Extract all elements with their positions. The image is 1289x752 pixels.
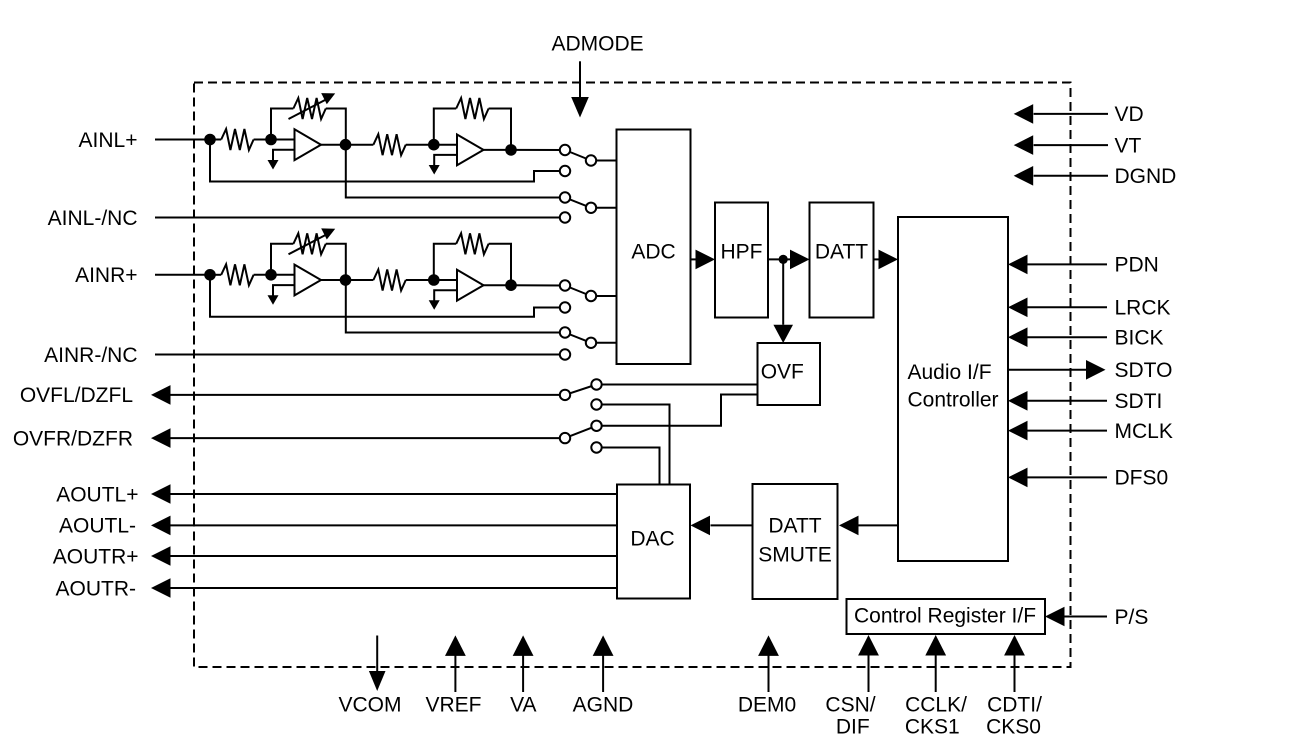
- svg-text:Audio I/F: Audio I/F: [908, 361, 992, 384]
- ground VCOM arrow at UL1: [268, 160, 279, 170]
- pin DEM0 arrow: [768, 655, 770, 692]
- pin AOUTL+ arrow: [151, 484, 171, 504]
- block DATT SMUTE: [753, 484, 838, 599]
- svg-text:AOUTL+: AOUTL+: [56, 483, 138, 506]
- wire HPF to DATT: [768, 258, 791, 260]
- svg-text:BICK: BICK: [1115, 327, 1164, 350]
- wire to op-amp UR2 +input: [434, 279, 457, 281]
- pin DGND: [1034, 175, 1108, 177]
- svg-text:DFS0: DFS0: [1115, 467, 1169, 490]
- wire to op-amp UR1 +input: [271, 274, 295, 276]
- svg-text:CKS0: CKS0: [986, 716, 1041, 739]
- svg-text:VREF: VREF: [425, 694, 481, 717]
- pin BICK: [1028, 336, 1108, 338]
- wire AINL row2 feedback path: [210, 140, 565, 182]
- svg-text:DIF: DIF: [836, 716, 870, 739]
- wire to op-amp UL2 +input: [434, 144, 457, 146]
- svg-text:SDTO: SDTO: [1115, 359, 1173, 382]
- resistor RR1: [210, 274, 221, 276]
- svg-text:ADC: ADC: [631, 241, 675, 264]
- wire UR2 output: [484, 284, 512, 286]
- wire OVFR/DZFR output: [170, 437, 566, 439]
- wire AINL+ input: [155, 139, 210, 141]
- svg-text:VA: VA: [510, 694, 536, 717]
- svg-text:CSN/: CSN/: [825, 694, 875, 717]
- wire AOUTR- output: [170, 587, 618, 589]
- pin VREF arrow: [454, 655, 456, 692]
- variable resistor VRL feedback: [271, 109, 293, 140]
- svg-text:SDTI: SDTI: [1115, 390, 1163, 413]
- block ADC: [617, 130, 691, 365]
- svg-text:DGND: DGND: [1115, 165, 1177, 188]
- pin AOUTR- arrow: [151, 578, 171, 598]
- node NL1: [265, 134, 277, 146]
- pin ADMODE arrow: [579, 61, 581, 98]
- wire op-amp UR2 -input to VCOM arrow: [434, 290, 457, 301]
- pin DFS0: [1028, 476, 1108, 478]
- pin CCLK/CKS1 arrow: [935, 655, 937, 692]
- switch SWO2 contacts: [560, 433, 570, 443]
- wire OVF to switch SWO2: [597, 395, 758, 426]
- op-amp UL2: [457, 135, 484, 166]
- pin VCOM arrow: [376, 636, 378, 672]
- node NL4 UL2 output: [505, 144, 517, 156]
- svg-text:DAC: DAC: [630, 528, 674, 551]
- wire junction to OVF: [782, 259, 784, 324]
- switch SWO1 lever: [565, 385, 597, 395]
- op-amp UL1: [295, 129, 322, 160]
- wire switch SWL1 to ADC: [591, 160, 617, 162]
- svg-text:DEM0: DEM0: [738, 694, 796, 717]
- wire AOUTL+ output: [170, 493, 618, 495]
- wire UL1 output: [321, 144, 346, 146]
- svg-text:DATT: DATT: [768, 515, 821, 538]
- svg-text:PDN: PDN: [1115, 254, 1159, 277]
- variable resistor VRR feedback: [271, 244, 293, 275]
- wire DATT to Audio I/F: [874, 258, 880, 260]
- switch SWO2 lever: [565, 426, 597, 438]
- wire UR1 output: [321, 279, 346, 281]
- svg-text:AOUTR-: AOUTR-: [56, 577, 137, 600]
- pin AOUTL- arrow: [151, 516, 171, 536]
- pin LRCK: [1028, 306, 1108, 308]
- svg-text:AGND: AGND: [573, 694, 634, 717]
- resistor RL3 feedback: [434, 109, 456, 145]
- switch SWR2 contacts: [560, 327, 570, 337]
- svg-text:AINR-/NC: AINR-/NC: [44, 344, 137, 367]
- svg-text:CCLK/: CCLK/: [905, 694, 967, 717]
- block Control Register I/F: [847, 599, 1046, 634]
- node NR1: [265, 269, 277, 281]
- switch SWR1 contacts: [560, 280, 570, 290]
- switch SWL2 lever: [565, 198, 591, 208]
- node NR2 UR1 output: [340, 274, 352, 286]
- wire AINR+ input: [155, 274, 210, 276]
- op-amp UR1: [295, 265, 322, 296]
- wire AINR-/NC input: [155, 354, 565, 356]
- svg-text:HPF: HPF: [721, 241, 763, 264]
- wire UL2 output: [484, 149, 512, 151]
- svg-text:OVFR/DZFR: OVFR/DZFR: [13, 427, 133, 450]
- svg-text:VT: VT: [1115, 134, 1142, 157]
- wire AINR row3 tap path: [346, 280, 565, 333]
- wire switch SWR2 to ADC: [591, 342, 617, 344]
- wire DAC zero-flag row (OVFR aux): [597, 448, 660, 485]
- node AINL+ junction: [204, 134, 216, 146]
- svg-text:DATT: DATT: [815, 241, 868, 264]
- svg-text:VD: VD: [1115, 103, 1144, 126]
- wire DAC zero-flag row (OVFL aux): [597, 405, 670, 485]
- wire UL2 output to switch: [511, 149, 565, 151]
- pin VT: [1034, 144, 1108, 146]
- ground VCOM arrow at UR2: [429, 300, 440, 310]
- block DAC: [617, 485, 690, 599]
- pin VD: [1034, 113, 1108, 115]
- block HPF: [715, 203, 768, 318]
- ground VCOM arrow at UL2: [429, 165, 440, 175]
- wire op-amp UL2 -input to VCOM arrow: [434, 155, 457, 166]
- pin OVFR/DZFR arrow: [151, 428, 171, 448]
- wire AOUTL- output: [170, 524, 618, 526]
- pin AGND arrow: [602, 655, 604, 692]
- node NR4 UR2 output: [505, 279, 517, 291]
- wire DATT SMUTE to DAC: [711, 524, 753, 526]
- wire OVFL/DZFL output: [170, 394, 566, 396]
- svg-text:CDTI/: CDTI/: [987, 694, 1042, 717]
- block Audio I/F Controller U3: [898, 217, 1008, 561]
- pin SDTO: [1008, 369, 1087, 371]
- node NR3: [428, 274, 440, 286]
- op-amp UR2: [457, 270, 484, 301]
- switch SWL1 contacts: [560, 145, 570, 155]
- svg-text:LRCK: LRCK: [1115, 297, 1171, 320]
- svg-text:OVF: OVF: [761, 361, 804, 384]
- svg-text:AOUTL-: AOUTL-: [59, 515, 136, 538]
- svg-text:AINL-/NC: AINL-/NC: [48, 207, 138, 230]
- wire UR2 output to switch: [511, 284, 565, 286]
- pin CSN/DIF arrow: [868, 655, 870, 692]
- variable resistor VRR adjust arrow: [289, 235, 327, 255]
- wire ADC to HPF: [691, 258, 697, 260]
- svg-text:OVFL/DZFL: OVFL/DZFL: [20, 384, 133, 407]
- svg-text:ADMODE: ADMODE: [552, 33, 644, 56]
- node NL2 UL1 output: [340, 139, 352, 151]
- svg-text:AINL+: AINL+: [79, 129, 138, 152]
- pin OVFL/DZFL arrow: [151, 385, 171, 405]
- switch SWL2 contacts: [560, 192, 570, 202]
- svg-text:AINR+: AINR+: [75, 264, 137, 287]
- resistor RR2: [346, 279, 374, 281]
- svg-text:MCLK: MCLK: [1115, 420, 1173, 443]
- switch SWR1 lever: [565, 286, 591, 297]
- pin MCLK: [1028, 430, 1108, 432]
- svg-text:SMUTE: SMUTE: [758, 544, 832, 567]
- svg-text:P/S: P/S: [1115, 606, 1149, 629]
- switch SWL1 lever: [565, 150, 591, 161]
- svg-text:VCOM: VCOM: [339, 694, 402, 717]
- wire AINL-/NC input: [155, 217, 565, 219]
- wire AOUTR+ output: [170, 555, 618, 557]
- resistor RR3 feedback: [434, 244, 456, 280]
- wire switch SWR1 to ADC: [591, 295, 617, 297]
- pin SDTI: [1028, 400, 1108, 402]
- switch SWO1 contacts: [560, 390, 570, 400]
- block OVF: [758, 343, 821, 405]
- wire OVF to switch SWO1: [597, 384, 758, 386]
- svg-text:Controller: Controller: [908, 389, 999, 412]
- resistor RL1: [210, 139, 221, 141]
- variable resistor VRL adjust arrow: [289, 100, 327, 120]
- pin VA arrow: [522, 655, 524, 692]
- pin P/S: [1064, 616, 1107, 618]
- svg-text:AOUTR+: AOUTR+: [53, 545, 139, 568]
- wire AINR row2 feedback path: [210, 275, 565, 317]
- block DATT: [810, 203, 874, 318]
- node HPF-DATT junction: [779, 255, 788, 264]
- wire op-amp UL1 -input to VCOM arrow: [273, 150, 295, 161]
- svg-text:CKS1: CKS1: [905, 716, 960, 739]
- pin CDTI/CKS0 arrow: [1014, 655, 1016, 692]
- node NL3: [428, 139, 440, 151]
- wire AINL row3 tap path: [346, 145, 565, 198]
- node AINR+ junction: [204, 269, 216, 281]
- wire switch SWL2 to ADC: [591, 207, 617, 209]
- pin AOUTR+ arrow: [151, 546, 171, 566]
- resistor RL2: [346, 144, 374, 146]
- wire Audio I/F to DATT SMUTE: [857, 524, 898, 526]
- wire op-amp UR1 -input to VCOM arrow: [273, 285, 295, 296]
- switch SWR2 lever: [565, 333, 591, 343]
- pin PDN: [1028, 263, 1108, 265]
- wire to op-amp UL1 +input: [271, 139, 295, 141]
- chip outline dashed border: [194, 83, 1071, 668]
- ground VCOM arrow at UR1: [268, 295, 279, 305]
- svg-text:Control Register I/F: Control Register I/F: [854, 605, 1036, 628]
